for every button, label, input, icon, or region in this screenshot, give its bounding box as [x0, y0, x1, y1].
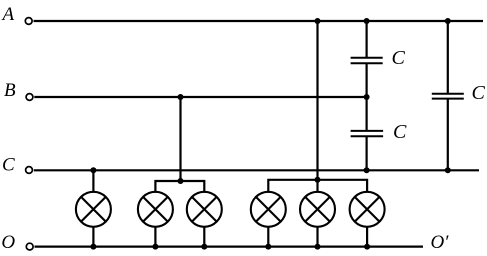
- wire: lamp L1 feed from line C: [92, 170, 94, 191]
- node: line C / L1 junction: [90, 167, 96, 173]
- node: B / feed junction: [178, 94, 184, 100]
- node: left bracket / feed junction: [178, 178, 184, 184]
- wire: capacitor column A-C upper lead: [447, 21, 449, 94]
- node: O / L4 junction: [265, 244, 271, 250]
- wire: capacitor column between C2 and line C: [366, 136, 368, 170]
- wire: L4 to neutral: [267, 227, 269, 247]
- wire: capacitor column B-C upper lead: [366, 97, 368, 131]
- node: O / L2 junction: [152, 244, 158, 250]
- wire: phase line C: [34, 169, 479, 171]
- terminal C: [26, 167, 33, 174]
- lamp L6: [350, 192, 385, 227]
- svg-text:B: B: [4, 80, 16, 101]
- lamp L4: [251, 192, 286, 227]
- wire: feed from A to right lamp group: [316, 21, 318, 192]
- wire: L2 to neutral: [154, 227, 156, 247]
- node: O / L1 junction: [90, 244, 96, 250]
- terminal O: [26, 243, 33, 250]
- wire: left pair bracket: [155, 181, 204, 192]
- svg-text:C: C: [472, 82, 486, 104]
- lamp L3: [187, 192, 222, 227]
- lamp L1: [76, 192, 111, 227]
- capacitor C3 (A-C): [432, 94, 464, 99]
- terminal B: [26, 94, 33, 101]
- lamp L2: [138, 192, 173, 227]
- wire: capacitor column A-B upper lead: [366, 21, 368, 58]
- wire: capacitor column between C3 and line C: [447, 99, 449, 171]
- node: O / L5 junction: [315, 244, 321, 250]
- svg-text:C: C: [392, 47, 406, 69]
- wire: phase line B: [34, 96, 366, 98]
- node: A / capacitor column junction: [364, 18, 370, 24]
- wire: L1 to neutral: [92, 227, 94, 247]
- wire: phase line A: [34, 20, 484, 22]
- svg-text:A: A: [1, 4, 15, 25]
- wire: right triple bracket: [268, 180, 367, 192]
- svg-text:C: C: [2, 154, 15, 175]
- capacitor C2 (B-C): [351, 131, 384, 136]
- node: A / feed junction: [315, 18, 321, 24]
- terminal A: [25, 18, 32, 25]
- wire: feed from B to middle lamp pair: [179, 97, 181, 181]
- node: right bracket / feed junction: [315, 177, 321, 183]
- svg-text:C: C: [393, 121, 407, 143]
- wire: L3 to neutral: [203, 227, 205, 247]
- wire: L5 to neutral: [316, 227, 318, 247]
- svg-text:O′: O′: [431, 232, 450, 253]
- wire: neutral line O: [35, 246, 424, 248]
- node: A / right capacitor junction: [445, 18, 451, 24]
- wire: L6 to neutral: [366, 227, 368, 247]
- node: B / capacitor column junction: [364, 94, 370, 100]
- svg-text:O: O: [1, 232, 15, 253]
- node: O / L3 junction: [201, 244, 207, 250]
- wire: capacitor column between C1 and B: [366, 63, 368, 97]
- capacitor C1 (A-B): [351, 58, 383, 64]
- node: line C / right capacitor junction: [445, 167, 451, 173]
- node: line C / capacitor column junction: [364, 167, 370, 173]
- node: O / L6 junction: [364, 244, 370, 250]
- lamp L5: [300, 192, 335, 227]
